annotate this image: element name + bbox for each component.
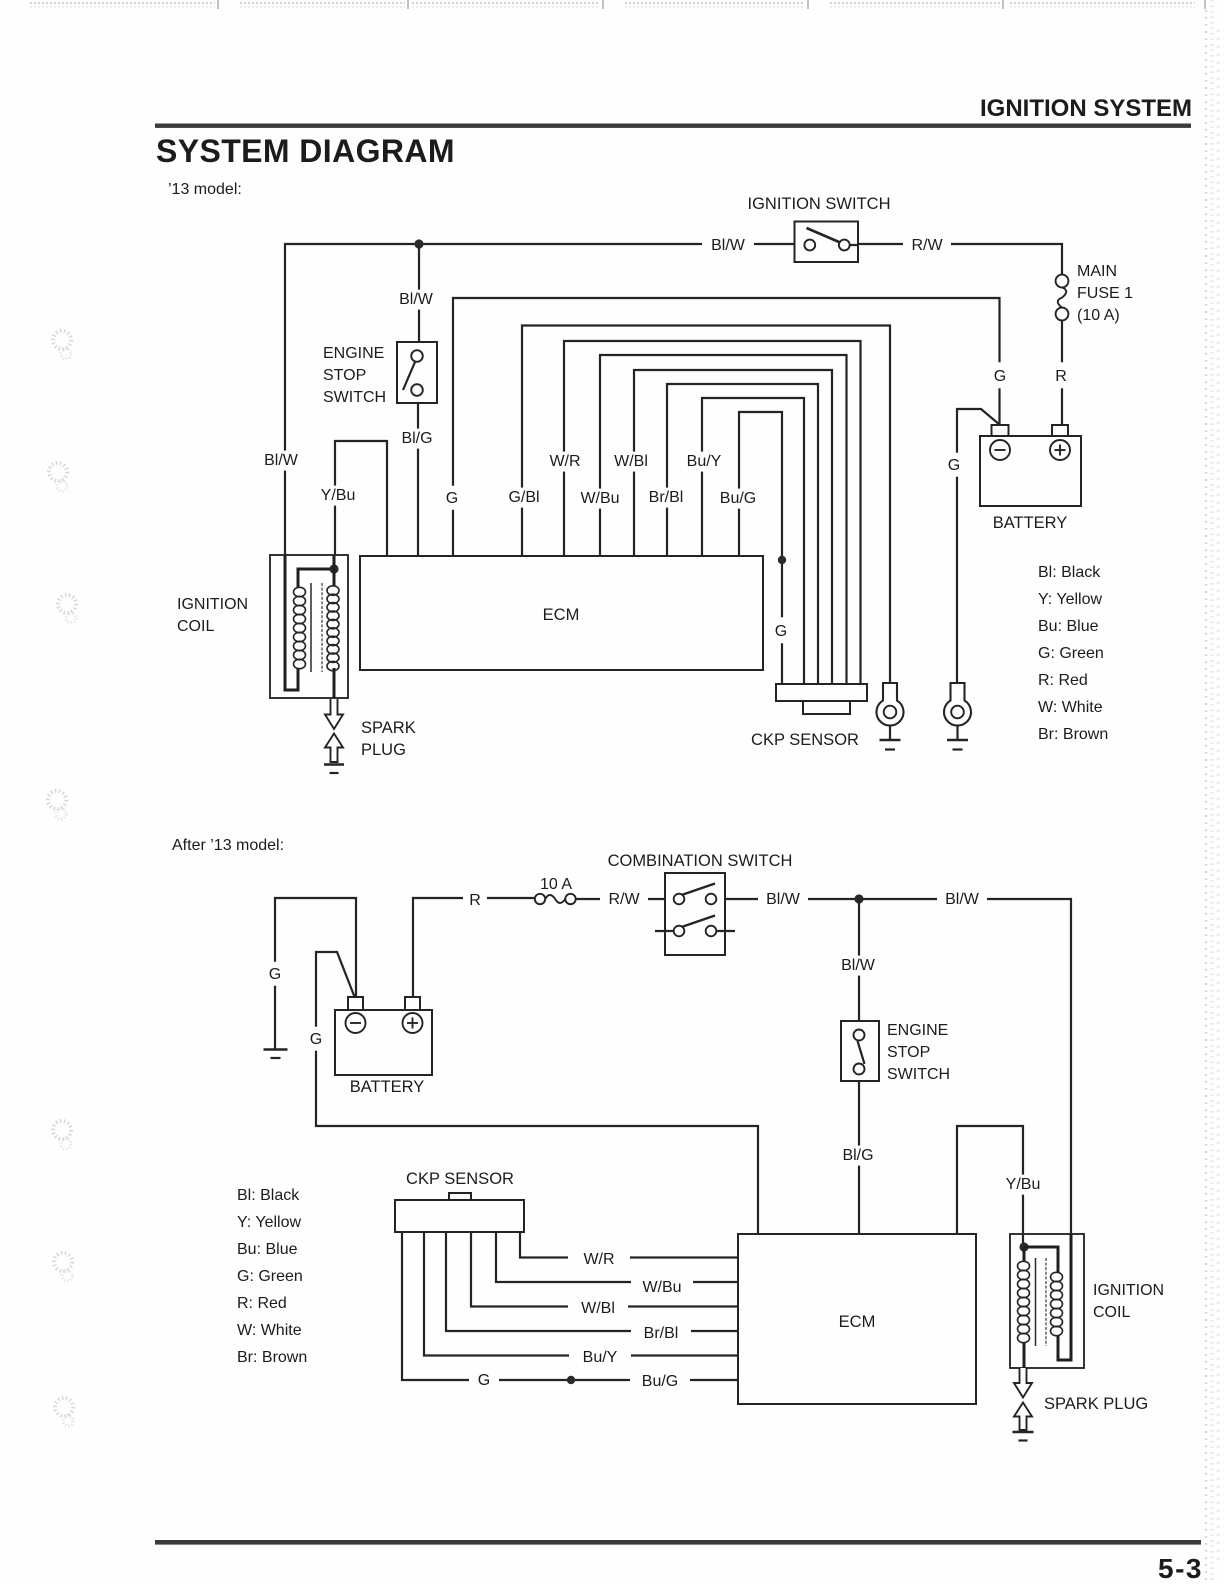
svg-text:R/W: R/W <box>911 237 943 254</box>
junction on Bu/G-G wire <box>778 556 786 564</box>
wire W/Bl: ECM to CKP sensor <box>634 370 832 684</box>
wire Br/Bl: CKP sensor to ECM <box>446 1232 738 1331</box>
label Bl/W (top wire) <box>702 236 754 256</box>
junction: Bl/W tap to engine stop switch <box>414 239 423 248</box>
svg-text:Y/Bu: Y/Bu <box>1006 1176 1041 1193</box>
wire Y/Bu: ECM to ignition coil <box>335 441 387 556</box>
label G (CKP wire) <box>770 617 792 643</box>
engine stop switch box (diagram 2) <box>841 1021 879 1081</box>
svg-text:W: White: W: White <box>237 1322 302 1339</box>
svg-text:Bl/W: Bl/W <box>264 452 299 469</box>
svg-text:R: R <box>1055 368 1067 385</box>
label G ground (diagram 2) <box>264 962 286 986</box>
scan artifact right margin band (decorative) <box>1205 10 1208 1584</box>
coil secondary winding <box>327 586 339 595</box>
label Y/Bu <box>315 486 361 506</box>
coil core lines <box>310 583 312 672</box>
svg-text:Bl/G: Bl/G <box>401 430 432 447</box>
label W/Bl <box>607 452 655 472</box>
svg-text:W/Bl: W/Bl <box>581 1300 615 1317</box>
wire W/R: ECM to CKP sensor <box>564 341 861 684</box>
svg-text:ENGINE: ENGINE <box>887 1022 948 1039</box>
svg-text:Bu: Blue: Bu: Blue <box>237 1241 298 1258</box>
wire Br/Bl: ECM to CKP sensor <box>667 384 818 684</box>
wire G: battery negative to ECM (diagram 2) <box>316 952 758 1233</box>
wire Bl/G: engine stop switch to ECM (diagram 2) <box>858 1081 860 1233</box>
scan speckles (decorative) <box>53 331 71 349</box>
svg-text:G: G <box>478 1372 490 1389</box>
svg-text:G: G <box>310 1031 322 1048</box>
svg-text:Bl/W: Bl/W <box>711 237 746 254</box>
svg-text:Br/Bl: Br/Bl <box>649 489 684 506</box>
wire Bl/G: engine stop switch to ECM <box>417 403 419 556</box>
label Bu/Y <box>680 452 728 472</box>
svg-text:Y/Bu: Y/Bu <box>321 487 356 504</box>
engine stop switch box (diagram 1) <box>397 342 437 403</box>
footer rule <box>155 1540 1201 1545</box>
coil secondary terminal runs <box>333 555 336 586</box>
label Bu/G <box>713 489 763 509</box>
wire Bl/W: junction down to engine stop switch <box>418 244 420 342</box>
label Bl/G (diagram 2) <box>834 1146 882 1166</box>
ignition switch blade <box>807 228 840 242</box>
svg-text:PLUG: PLUG <box>361 741 406 759</box>
label G ecm (diagram 2) <box>305 1027 327 1051</box>
svg-text:SWITCH: SWITCH <box>323 389 386 406</box>
svg-text:Bl: Black: Bl: Black <box>1038 564 1101 581</box>
ECM box (diagram 1) <box>360 556 763 670</box>
fuse MAIN FUSE 1 (10 A) symbol <box>1056 275 1069 288</box>
CKP sensor box (diagram 2) <box>395 1200 524 1232</box>
wire G: battery negative to ground ring terminal 2 <box>957 409 1000 684</box>
ground symbol 1 <box>889 726 891 740</box>
svg-text:W/Bu: W/Bu <box>580 490 619 507</box>
label G (ECM) <box>441 486 463 510</box>
svg-text:Bl/W: Bl/W <box>945 891 980 908</box>
svg-text:W/Bl: W/Bl <box>614 453 648 470</box>
svg-text:MAIN: MAIN <box>1077 263 1117 280</box>
ignition switch contact right <box>839 240 850 251</box>
svg-text:Bu/G: Bu/G <box>720 490 756 507</box>
label Bl/W c (diagram 2) <box>833 956 883 976</box>
label Bu/Y (diagram 2) <box>569 1348 631 1368</box>
wire R: battery positive to fuse <box>413 898 535 997</box>
svg-text:ECM: ECM <box>839 1313 876 1331</box>
label G (battery feed) <box>989 362 1011 388</box>
svg-text:(10 A): (10 A) <box>1077 307 1120 324</box>
svg-text:Bl/W: Bl/W <box>766 891 801 908</box>
svg-text:BATTERY: BATTERY <box>993 514 1068 532</box>
ignition coil box (diagram 2) <box>1010 1234 1084 1368</box>
wire W/Bl: CKP sensor to ECM <box>471 1232 738 1307</box>
svg-text:After ’13 model:: After ’13 model: <box>172 837 284 854</box>
svg-text:IGNITION SWITCH: IGNITION SWITCH <box>748 195 891 213</box>
wire W/Bu: ECM to CKP sensor <box>600 355 847 684</box>
svg-text:CKP SENSOR: CKP SENSOR <box>406 1170 514 1188</box>
label R <box>1050 362 1072 388</box>
svg-text:IGNITION SYSTEM: IGNITION SYSTEM <box>980 95 1192 122</box>
svg-text:G: G <box>948 457 960 474</box>
svg-text:Bu/Y: Bu/Y <box>687 453 722 470</box>
svg-text:SPARK PLUG: SPARK PLUG <box>1044 1395 1148 1413</box>
wire Bl/W: junction to engine stop switch (diagram 2) <box>858 899 860 1021</box>
spark plug arrow (up) <box>325 734 343 763</box>
coil primary winding <box>294 587 306 596</box>
svg-text:W/Bu: W/Bu <box>642 1279 681 1296</box>
wire G: ECM to battery negative <box>453 298 1000 556</box>
ignition switch box <box>795 222 859 263</box>
coil primary loop-back path <box>285 555 298 690</box>
svg-text:Bl/G: Bl/G <box>842 1147 873 1164</box>
ECM box (diagram 2) <box>738 1234 976 1404</box>
combination switch box <box>665 873 725 955</box>
label R (diagram 2) <box>463 889 487 911</box>
svg-text:G/Bl: G/Bl <box>508 489 539 506</box>
svg-text:R/W: R/W <box>608 891 640 908</box>
coil 2 junction dot <box>1019 1242 1028 1251</box>
svg-text:IGNITION: IGNITION <box>177 596 248 613</box>
svg-text:SPARK: SPARK <box>361 719 416 737</box>
coil 2 secondary winding <box>1051 1272 1063 1281</box>
label Br/Bl <box>642 488 690 508</box>
svg-text:COIL: COIL <box>177 618 214 635</box>
svg-text:W: White: W: White <box>1038 699 1103 716</box>
coil 2 primary winding <box>1018 1261 1030 1270</box>
svg-text:STOP: STOP <box>887 1044 930 1061</box>
ignition switch contact left <box>804 240 815 251</box>
svg-text:Bu: Blue: Bu: Blue <box>1038 618 1099 635</box>
coil 2 secondary loop-back path <box>1024 1247 1058 1273</box>
svg-text:SWITCH: SWITCH <box>887 1066 950 1083</box>
label R/W (diagram 2) <box>600 890 648 910</box>
svg-text:G: G <box>775 623 787 640</box>
wire R/W: fuse to combination switch <box>576 898 665 900</box>
battery (diagram 1) <box>980 436 1081 506</box>
ground symbol 2 <box>956 726 958 740</box>
label W/R <box>542 452 588 472</box>
svg-text:G: G <box>269 966 281 983</box>
svg-text:STOP: STOP <box>323 367 366 384</box>
label Bl/W (mid) <box>391 290 441 310</box>
svg-text:Bu/G: Bu/G <box>642 1373 678 1390</box>
junction on G/Bu-G wire (diagram 2) <box>567 1376 575 1384</box>
wire W/Bu: CKP sensor to ECM <box>496 1232 738 1282</box>
ignition coil box (diagram 1) <box>270 555 348 698</box>
spark plug lead arrow (down) <box>325 699 343 729</box>
label Bu/G (diagram 2) <box>630 1372 690 1392</box>
svg-text:W/R: W/R <box>583 1251 614 1268</box>
svg-text:ENGINE: ENGINE <box>323 345 384 362</box>
junction Bl/W tap <box>854 894 863 903</box>
wire Bu/G + G: ECM to CKP sensor <box>739 412 782 684</box>
svg-text:Br: Brown: Br: Brown <box>237 1349 307 1366</box>
wire G + Bu/G: CKP sensor to ECM <box>402 1232 738 1380</box>
label Bl/G <box>393 429 441 449</box>
wire Bu/Y: CKP sensor to ECM <box>424 1232 738 1356</box>
wire W/R: CKP sensor to ECM <box>520 1232 738 1258</box>
svg-text:IGNITION: IGNITION <box>1093 1282 1164 1299</box>
svg-text:10 A: 10 A <box>540 876 572 893</box>
svg-text:COMBINATION SWITCH: COMBINATION SWITCH <box>608 852 793 870</box>
wire G: battery negative to frame ground (diagram 2) <box>275 898 356 1049</box>
scan artifact dashed strips (decorative) <box>30 2 215 4</box>
wire R: fuse to battery positive <box>1061 320 1063 425</box>
label G (battery negative) <box>943 453 965 477</box>
wire Bl/W: ignition coil to ignition switch (top run, diagram 1) <box>285 244 795 555</box>
coil junction dot <box>329 564 338 573</box>
label Bl/W a (diagram 2) <box>758 890 808 910</box>
spark plug arrow up (diagram 2) <box>1014 1403 1032 1431</box>
combination switch pole 2 <box>655 930 674 932</box>
wire Bl/W: combination switch to ignition coil (diagram 2) <box>725 899 1071 1234</box>
fuse 10 A symbol (diagram 2) <box>535 894 545 904</box>
label Bl/W (left) <box>256 451 306 471</box>
label W/R (diagram 2) <box>568 1250 630 1270</box>
svg-text:Bl/W: Bl/W <box>841 957 876 974</box>
coil 2 primary terminal runs <box>1023 1247 1026 1262</box>
coil 2 core lines <box>1035 1258 1037 1346</box>
svg-text:W/R: W/R <box>549 453 580 470</box>
svg-text:R: R <box>469 892 481 909</box>
svg-text:G: Green: G: Green <box>1038 645 1104 662</box>
spark plug ground <box>324 763 344 766</box>
CKP sensor box (diagram 1) <box>776 684 867 701</box>
wire Y/Bu: ECM to ignition coil (diagram 2) <box>957 1126 1023 1247</box>
label Br/Bl (diagram 2) <box>631 1324 691 1344</box>
svg-text:Bu/Y: Bu/Y <box>583 1349 618 1366</box>
svg-text:5-3: 5-3 <box>1158 1553 1203 1584</box>
label W/Bl (diagram 2) <box>568 1299 628 1319</box>
svg-text:Bl: Black: Bl: Black <box>237 1187 300 1204</box>
svg-text:R: Red: R: Red <box>1038 672 1088 689</box>
label G/Bl <box>502 488 546 508</box>
svg-text:Y: Yellow: Y: Yellow <box>1038 591 1103 608</box>
wire R/W: ignition switch to main fuse <box>850 244 1062 275</box>
svg-text:’13 model:: ’13 model: <box>168 181 242 198</box>
header rule <box>155 124 1191 128</box>
svg-text:ECM: ECM <box>543 606 580 624</box>
svg-text:Br/Bl: Br/Bl <box>644 1325 679 1342</box>
battery (diagram 2) <box>335 1010 432 1075</box>
label Y/Bu (diagram 2) <box>999 1175 1047 1195</box>
ground ring terminal 2 <box>944 683 971 726</box>
svg-text:FUSE 1: FUSE 1 <box>1077 285 1133 302</box>
label R/W <box>903 236 951 256</box>
spark plug ground (diagram 2) <box>1013 1431 1034 1434</box>
svg-text:CKP SENSOR: CKP SENSOR <box>751 731 859 749</box>
label Bl/W b (diagram 2) <box>937 890 987 910</box>
svg-text:Bl/W: Bl/W <box>399 291 434 308</box>
svg-text:G: Green: G: Green <box>237 1268 303 1285</box>
svg-text:BATTERY: BATTERY <box>350 1078 425 1096</box>
label W/Bu <box>574 489 626 509</box>
svg-text:SYSTEM DIAGRAM: SYSTEM DIAGRAM <box>156 133 455 169</box>
svg-text:G: G <box>446 490 458 507</box>
ground ring terminal 1 <box>877 683 904 726</box>
svg-text:Y: Yellow: Y: Yellow <box>237 1214 302 1231</box>
label G wire (diagram 2) <box>469 1369 499 1391</box>
svg-text:R: Red: R: Red <box>237 1295 287 1312</box>
frame ground symbol <box>264 1048 288 1051</box>
svg-text:COIL: COIL <box>1093 1304 1130 1321</box>
combination switch pole 1 <box>674 894 685 905</box>
svg-text:Br: Brown: Br: Brown <box>1038 726 1108 743</box>
svg-text:G: G <box>994 368 1006 385</box>
wire G/Bl: ECM to ground ring terminal 1 <box>522 326 890 685</box>
wire Bu/Y: ECM to CKP sensor <box>702 398 804 684</box>
label W/Bu (diagram 2) <box>631 1278 693 1298</box>
spark plug lead arrow down (diagram 2) <box>1014 1368 1032 1398</box>
